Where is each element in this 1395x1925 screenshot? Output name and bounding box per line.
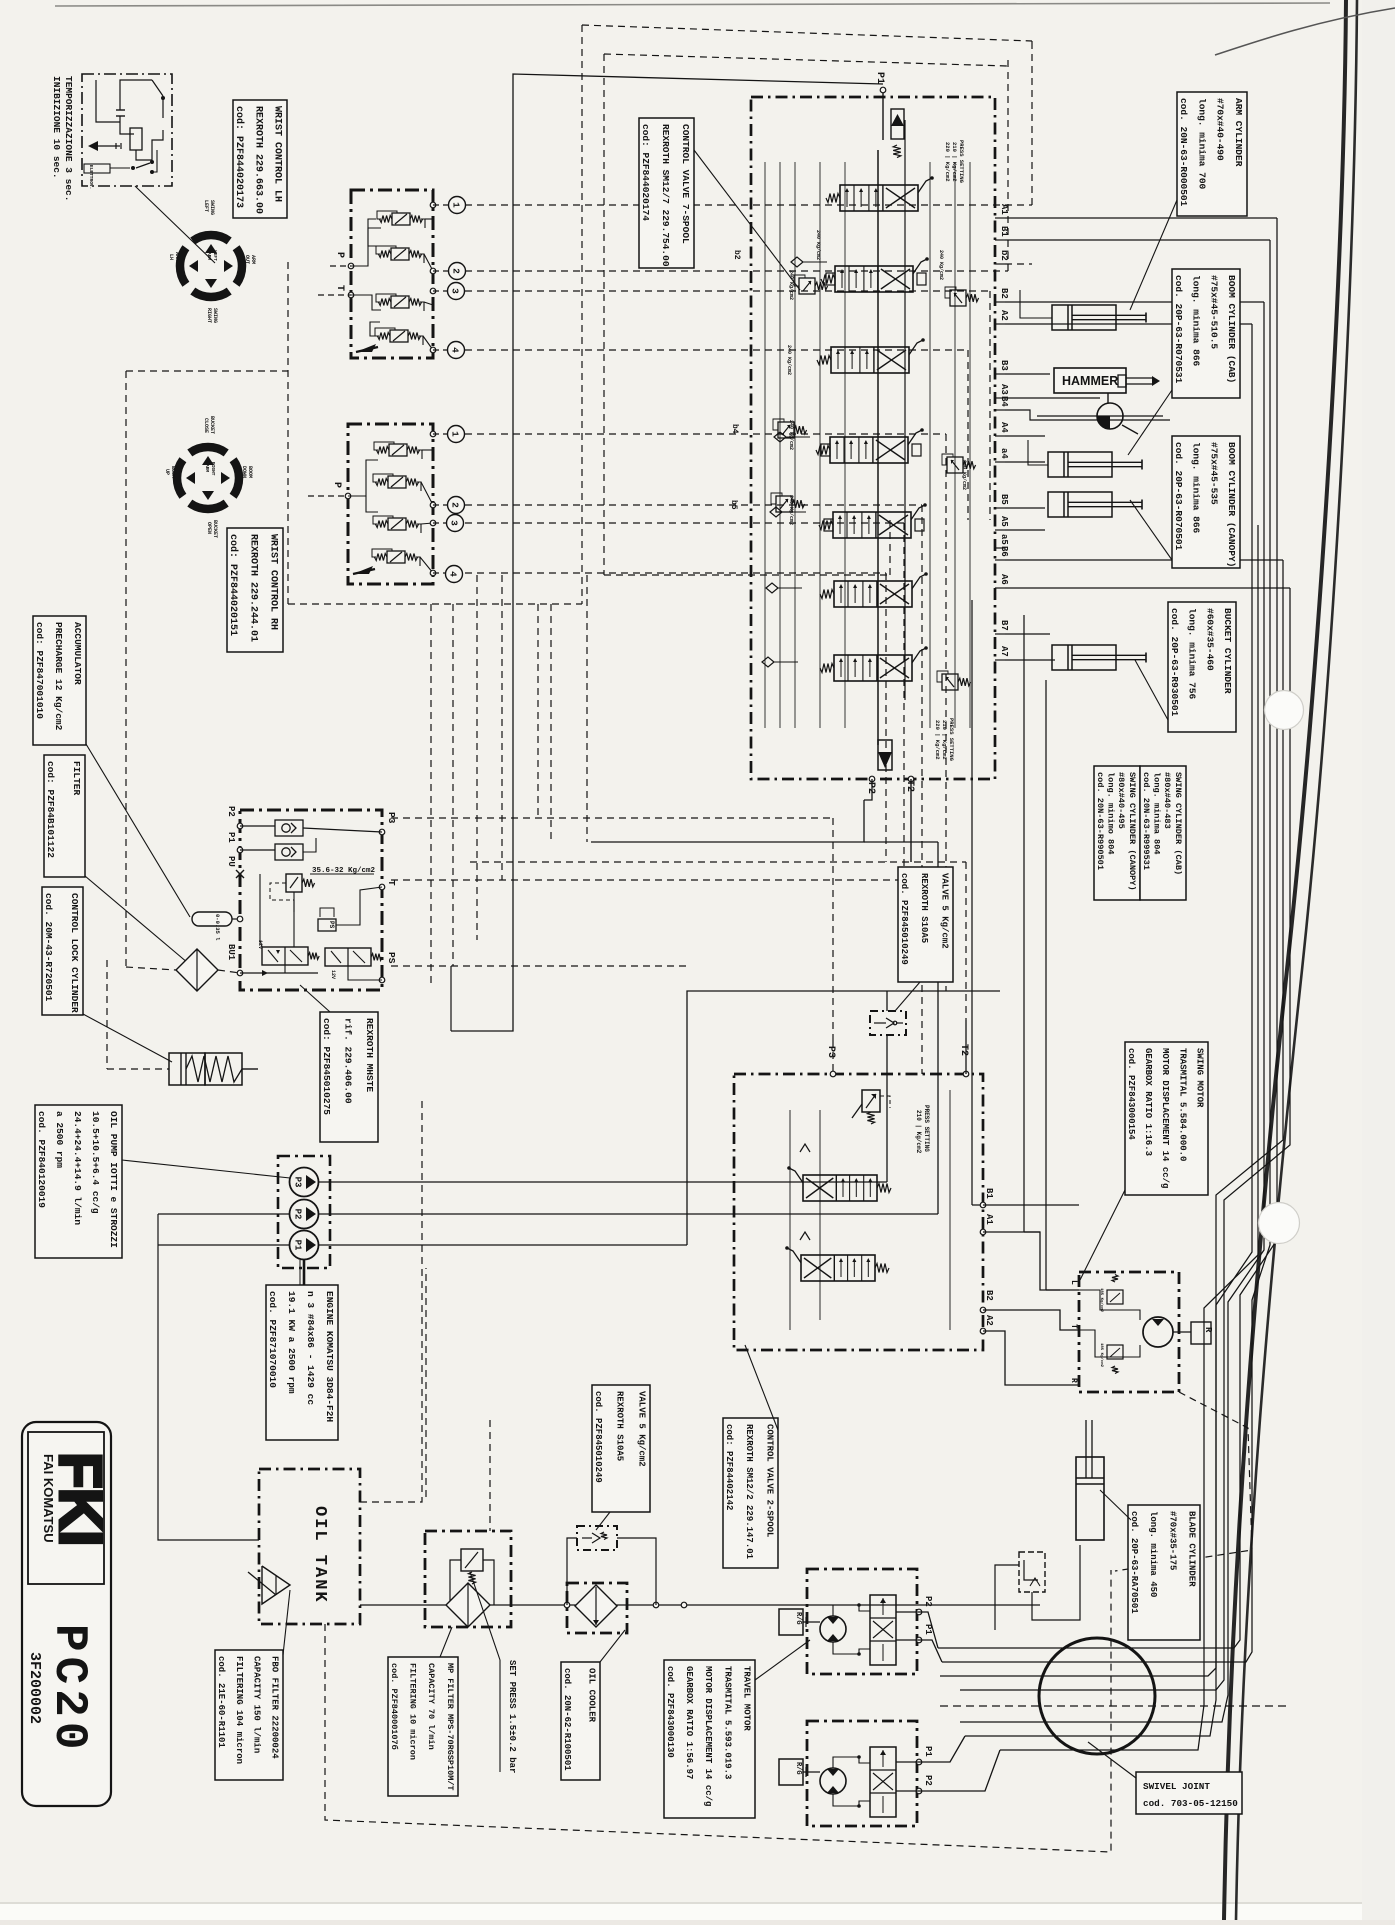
pilot block 2 reducing valve 3 <box>388 518 406 530</box>
filter dashed connections <box>126 967 176 970</box>
svg-text:3: 3 <box>450 288 461 294</box>
svg-text:PS: PS <box>386 952 397 964</box>
svg-text:cod. 20P-63-R070531: cod. 20P-63-R070531 <box>1173 275 1184 384</box>
svg-text:REXROTH S10A5: REXROTH S10A5 <box>919 873 929 943</box>
svg-text:FILTERING 104 micron: FILTERING 104 micron <box>234 1656 244 1764</box>
svg-text:RIGHT: RIGHT <box>206 308 212 323</box>
tank top dashed <box>360 1100 422 1502</box>
label travel motor <box>664 1660 755 1818</box>
label valve 5kg lower <box>592 1385 650 1512</box>
svg-text:P2: P2 <box>226 806 236 817</box>
svg-text:B7: B7 <box>999 620 1009 631</box>
svg-text:ELETTROV.: ELETTROV. <box>88 165 94 189</box>
svg-text:1: 1 <box>451 202 462 208</box>
svg-text:4: 4 <box>448 571 459 577</box>
label boom cylinder cab <box>1172 269 1240 398</box>
svg-text:T: T <box>334 285 345 291</box>
pilot valve block 1 border <box>351 190 433 358</box>
leader oil cooler <box>600 1630 625 1662</box>
svg-text:OIL PUMP IOTTI e STROZZI: OIL PUMP IOTTI e STROZZI <box>108 1111 119 1248</box>
pilot trunk dashed lines <box>126 25 1032 1074</box>
svg-text:TRAVEL MOTOR: TRAVEL MOTOR <box>742 1666 752 1731</box>
swing spool 2 <box>801 1255 875 1281</box>
manifold internal wiring <box>240 826 382 980</box>
manifold ports left <box>226 806 244 976</box>
timer label TEMPORIZZAZIONE <box>51 76 74 201</box>
svg-text:B2: B2 <box>999 288 1009 299</box>
svg-text:4: 4 <box>450 347 461 353</box>
set press text <box>470 1572 517 1773</box>
pump drive shaft <box>303 1260 306 1285</box>
svg-text:TEMPORIZZAZIONE 3 sec.: TEMPORIZZAZIONE 3 sec. <box>63 76 74 201</box>
oil tank border <box>259 1469 360 1624</box>
travel RG box 1 <box>779 1609 803 1635</box>
svg-text:CONTROL VALVE 7-SPOOL: CONTROL VALVE 7-SPOOL <box>680 124 691 244</box>
svg-text:FILTERING 10 micron: FILTERING 10 micron <box>408 1663 418 1760</box>
svg-text:3F200002: 3F200002 <box>26 1652 43 1724</box>
svg-text:A2: A2 <box>999 310 1009 321</box>
swing drain dashed <box>1115 1392 1252 1571</box>
svg-text:240 Kg/cm2: 240 Kg/cm2 <box>788 270 794 300</box>
swing motor reliefs <box>1099 1275 1123 1374</box>
leader line relay to joystick <box>135 186 215 263</box>
svg-text:B3: B3 <box>999 360 1009 371</box>
svg-text:OUT: OUT <box>244 255 250 264</box>
svg-text:240 Kg/cm2: 240 Kg/cm2 <box>788 420 794 450</box>
pilot block 1 reducing valve 2 <box>391 248 409 260</box>
label mp filter <box>388 1657 458 1796</box>
leader 5kg upper <box>895 982 920 1011</box>
swing relief valve <box>852 1090 890 1124</box>
hammer box <box>1054 368 1160 393</box>
svg-text:A3: A3 <box>999 384 1009 395</box>
leader swivel <box>1088 1742 1136 1778</box>
svg-text:cod. 20N-63-R990501: cod. 20N-63-R990501 <box>1095 772 1105 870</box>
mid dashed vertical <box>489 1420 491 1531</box>
leader oil pump <box>122 1160 290 1178</box>
svg-text:ARM: ARM <box>206 252 212 260</box>
leader accumulator <box>86 744 190 917</box>
svg-text:240 Kg/cm2: 240 Kg/cm2 <box>938 250 944 280</box>
label boom cylinder canopy <box>1172 436 1240 568</box>
svg-text:210 | Kg/cm2: 210 | Kg/cm2 <box>951 142 958 182</box>
bucket cylinder symbol <box>1052 645 1116 670</box>
arm cylinder symbol <box>1052 305 1116 330</box>
top paper edge line <box>55 3 1330 6</box>
travel motor block 2 border <box>807 1721 917 1826</box>
joystick RH <box>164 416 253 538</box>
svg-text:#70x#35-175: #70x#35-175 <box>1167 1511 1177 1570</box>
label engine komatsu <box>266 1285 338 1440</box>
pump pressure feed verticals <box>687 991 1000 1245</box>
svg-text:240 Kg/cm2: 240 Kg/cm2 <box>961 460 967 490</box>
label control valve 7-spool <box>639 118 694 268</box>
pump suction lines <box>158 1213 290 1215</box>
svg-text:b2: b2 <box>999 250 1009 261</box>
label swing motor <box>1125 1042 1208 1195</box>
svg-text:10.5+10.5+6.4 cc/g: 10.5+10.5+6.4 cc/g <box>90 1111 101 1214</box>
label swing cylinder canopy <box>1094 766 1140 900</box>
swing motor internal lines <box>1079 1290 1140 1320</box>
pilot block 1 internal wires <box>351 228 381 266</box>
svg-text:B5: B5 <box>999 494 1009 505</box>
FKI logo black <box>41 1452 114 1546</box>
travel motor block 1 wiring <box>833 1605 870 1616</box>
filter diamond <box>176 949 218 991</box>
svg-text:cod. PZF840120019: cod. PZF840120019 <box>36 1111 47 1208</box>
right scan edge lines <box>1224 0 1346 1920</box>
svg-text:LEFT: LEFT <box>203 200 209 212</box>
svg-text:FKI: FKI <box>47 1452 114 1546</box>
svg-text:OIL TANK: OIL TANK <box>310 1506 329 1604</box>
swing motor block border <box>1079 1272 1179 1392</box>
manifold ports right <box>379 812 397 983</box>
pilot block 2 reducing valve 4 <box>387 551 405 563</box>
mid-right long verticals <box>911 600 1060 1290</box>
svg-text:#75x#45-510.5: #75x#45-510.5 <box>1208 275 1219 349</box>
pilot block 2 internal wires <box>348 460 378 496</box>
svg-text:cod: PZF845010275: cod: PZF845010275 <box>321 1018 332 1115</box>
svg-text:BOOM CYLINDER (CANOPY): BOOM CYLINDER (CANOPY) <box>1226 442 1237 567</box>
svg-text:UP: UP <box>164 469 170 475</box>
leader arm cylinder <box>1130 200 1177 310</box>
main control valve border <box>751 97 995 779</box>
svg-text:P1: P1 <box>293 1240 303 1251</box>
label filter <box>44 755 85 877</box>
bottom dashed trunk <box>325 1570 1111 1852</box>
leader rexroth mhste <box>300 985 330 1012</box>
svg-text:cod: PZF847001010: cod: PZF847001010 <box>34 622 45 719</box>
svg-text:B1: B1 <box>999 226 1009 237</box>
svg-text:P2: P2 <box>293 1209 303 1220</box>
svg-text:P: P <box>331 482 342 488</box>
spool 4 boom2 <box>830 437 908 463</box>
svg-text:MP FILTER MPS-70RGSP10M/T: MP FILTER MPS-70RGSP10M/T <box>445 1663 455 1791</box>
swivel dashed line <box>940 1705 1286 1707</box>
accumulator 0-0.35l <box>192 912 243 941</box>
svg-text:WRIST CONTROL RH: WRIST CONTROL RH <box>268 534 279 630</box>
blade cylinder symbol <box>1076 1420 1104 1540</box>
tank return line <box>360 1604 1040 1606</box>
manifold relief 35.6-32 <box>286 867 376 892</box>
svg-text:REXROTH 229.663.00: REXROTH 229.663.00 <box>252 106 263 214</box>
pump P1 <box>290 1231 319 1260</box>
svg-text:RIGHT: RIGHT <box>210 462 216 476</box>
svg-text:220 | Kg/cm2: 220 | Kg/cm2 <box>934 720 941 760</box>
svg-text:a4: a4 <box>999 448 1009 459</box>
leader fbo filter <box>283 1590 290 1655</box>
svg-text:long. minima 866: long. minima 866 <box>1191 275 1202 367</box>
swing motor R box <box>1173 1322 1213 1344</box>
svg-text:240 Kg/cm2: 240 Kg/cm2 <box>786 345 792 375</box>
travel motor block 2 spool <box>870 1747 896 1817</box>
leader filter <box>85 876 188 963</box>
svg-text:cod. PZF845010249: cod. PZF845010249 <box>899 873 909 965</box>
svg-text:cod. PZF843000154: cod. PZF843000154 <box>1126 1048 1136 1140</box>
svg-text:ARM: ARM <box>204 464 210 472</box>
travel motor block 2 motor <box>820 1768 846 1794</box>
svg-text:DOWN: DOWN <box>241 466 247 478</box>
outlet relief bottom <box>878 718 955 770</box>
punch hole 2 <box>1259 1203 1300 1244</box>
svg-text:cod. PZF843000130: cod. PZF843000130 <box>665 1666 675 1758</box>
pump block dashed border <box>278 1156 330 1268</box>
svg-text:GEARBOX RATIO 1:56.97: GEARBOX RATIO 1:56.97 <box>684 1666 694 1779</box>
pilot block 2 circled ports <box>448 426 465 443</box>
svg-text:#70x#40-490: #70x#40-490 <box>1215 98 1226 161</box>
svg-text:12V: 12V <box>330 970 336 979</box>
svg-text:#75x#45-535: #75x#45-535 <box>1208 442 1219 505</box>
cooler bypass lines <box>567 1538 577 1605</box>
label wrist control LH <box>233 100 287 218</box>
svg-text:cod. PZF84000107б: cod. PZF84000107б <box>389 1663 400 1750</box>
manifold solenoid valve right <box>325 948 382 979</box>
manifold check valve 1 <box>275 820 303 836</box>
travel RG box 2 <box>779 1759 803 1785</box>
svg-text:PRESS SETTING: PRESS SETTING <box>948 718 955 762</box>
svg-text:185 Kg/cm2: 185 Kg/cm2 <box>1099 1343 1104 1368</box>
svg-text:240 Kg/cm2: 240 Kg/cm2 <box>788 495 794 525</box>
svg-text:SWING CYLINDER (CAB): SWING CYLINDER (CAB) <box>1173 772 1183 875</box>
svg-text:CONTROL VALVE 2-SPOOL: CONTROL VALVE 2-SPOOL <box>765 1424 775 1537</box>
svg-text:a5: a5 <box>999 534 1009 545</box>
boom cylinder cab symbol <box>1048 452 1112 477</box>
leader line control valve label <box>694 150 800 290</box>
label oil cooler <box>561 1662 600 1780</box>
pilot block 2 reducing valve 2 <box>388 476 406 488</box>
svg-text:P3: P3 <box>825 1046 836 1058</box>
svg-text:HAMMER: HAMMER <box>1062 374 1118 388</box>
manifold PS switch <box>318 908 336 931</box>
mp filter relief <box>450 1549 494 1605</box>
leader 5kg lower <box>596 1512 610 1530</box>
spool 5 swing <box>833 512 911 538</box>
oil cooler bypass valve <box>577 1526 617 1550</box>
svg-text:SWING MOTOR: SWING MOTOR <box>1195 1048 1205 1108</box>
svg-text:A1: A1 <box>999 204 1009 215</box>
svg-text:#80x#40-495: #80x#40-495 <box>1116 772 1126 829</box>
pump P2 <box>290 1200 319 1229</box>
svg-text:24.4+24.4+14.9 l/min: 24.4+24.4+14.9 l/min <box>72 1111 83 1225</box>
svg-text:3: 3 <box>449 520 460 526</box>
svg-text:SET PRESS 1.5±0.2 bar: SET PRESS 1.5±0.2 bar <box>507 1660 517 1773</box>
spool 2 boom <box>835 266 913 292</box>
svg-text:cod: PZF84402142: cod: PZF84402142 <box>724 1424 734 1510</box>
svg-text:TRASMITAL 5.584.000.0: TRASMITAL 5.584.000.0 <box>1177 1048 1187 1161</box>
swing valve border <box>734 1074 983 1350</box>
svg-text:R: R <box>1069 1378 1078 1383</box>
svg-text:220 | Kg/cm2: 220 | Kg/cm2 <box>944 142 951 182</box>
main P gallery <box>877 150 879 745</box>
svg-text:b2: b2 <box>732 250 741 260</box>
P2 feed to main valve <box>591 800 864 842</box>
swivel joint label <box>1136 1772 1242 1814</box>
svg-text:long. minima 756: long. minima 756 <box>1187 608 1198 700</box>
swing checks <box>800 1144 810 1152</box>
svg-text:REXROTH SM12/7 229.754.00: REXROTH SM12/7 229.754.00 <box>660 124 671 267</box>
leader blade cylinder <box>1100 1490 1131 1520</box>
svg-text:long. minima 866: long. minima 866 <box>1191 442 1202 534</box>
svg-text:PC20: PC20 <box>43 1624 95 1754</box>
leader swing motor <box>1080 1190 1125 1280</box>
svg-text:PRESS SETTING: PRESS SETTING <box>958 140 965 184</box>
svg-text:PRESS SETTING: PRESS SETTING <box>923 1105 930 1152</box>
swing motor pipes <box>983 1205 1079 1385</box>
svg-text:BOOM CYLINDER (CAB): BOOM CYLINDER (CAB) <box>1226 275 1237 383</box>
svg-text:long. minima 804: long. minima 804 <box>1152 772 1162 855</box>
svg-text:WRIST CONTROL LH: WRIST CONTROL LH <box>272 106 283 202</box>
blade holding valve <box>1019 1552 1045 1592</box>
svg-text:long. minima 700: long. minima 700 <box>1196 98 1207 190</box>
swing internal verticals <box>789 1110 791 1330</box>
svg-text:#60x#35-460: #60x#35-460 <box>1204 608 1215 671</box>
FKI logo card <box>22 1422 111 1806</box>
leader mp filter <box>440 1627 452 1657</box>
svg-text:A4: A4 <box>999 422 1009 433</box>
hammer breaker circle <box>1037 393 1163 434</box>
joystick LH <box>168 200 256 323</box>
svg-text:cod. 20N-63-R999531: cod. 20N-63-R999531 <box>1141 772 1151 870</box>
svg-text:long. minima 450: long. minima 450 <box>1148 1511 1158 1597</box>
svg-text:FAI KOMATSU: FAI KOMATSU <box>41 1454 56 1543</box>
svg-text:cod. 20N-62-R100501: cod. 20N-62-R100501 <box>562 1668 572 1771</box>
svg-text:REXROTH 229.244.01: REXROTH 229.244.01 <box>247 534 258 642</box>
spool relief valves <box>799 278 815 294</box>
swing press setting text <box>915 1105 930 1154</box>
middle trunk rows <box>391 818 966 1040</box>
svg-text:LEFT: LEFT <box>212 250 218 261</box>
5kg valve vertical connection <box>886 991 888 1011</box>
work port pipe runs <box>1005 218 1290 660</box>
svg-text:SWIVEL JOINT: SWIVEL JOINT <box>1143 1781 1210 1792</box>
svg-text:VALVE 5 Kg/cm2: VALVE 5 Kg/cm2 <box>637 1391 647 1467</box>
label bucket cylinder <box>1168 602 1236 732</box>
svg-text:0-0.35 l: 0-0.35 l <box>214 914 221 941</box>
label fbo filter <box>215 1650 283 1780</box>
label blade cylinder <box>1128 1505 1200 1640</box>
svg-text:A5: A5 <box>999 516 1009 527</box>
manifold solenoid valve left <box>257 940 319 965</box>
svg-text:cod: PZF844020151: cod: PZF844020151 <box>227 534 239 636</box>
svg-text:T2: T2 <box>958 1044 969 1056</box>
svg-text:a 2500 rpm: a 2500 rpm <box>54 1111 65 1168</box>
label control lock cylinder <box>42 887 83 1015</box>
svg-text:rif. 229.406.00: rif. 229.406.00 <box>343 1018 354 1104</box>
P1 feed long line <box>451 74 883 1031</box>
travel pipes to swivel <box>919 1612 938 1648</box>
svg-text:CLOSE: CLOSE <box>203 418 209 433</box>
swivel joint circle <box>1039 1638 1155 1754</box>
dashed to lock cylinder <box>107 1068 169 1070</box>
svg-text:cod: PZF84B101122: cod: PZF84B101122 <box>45 761 56 858</box>
svg-text:ENGINE KOMATSU 3D84-F2H: ENGINE KOMATSU 3D84-F2H <box>324 1291 335 1422</box>
label wrist control RH <box>227 528 283 652</box>
label swing cylinder cab <box>1140 766 1186 900</box>
svg-text:b5: b5 <box>729 500 738 510</box>
svg-text:PU: PU <box>226 856 236 867</box>
svg-text:P1: P1 <box>226 832 236 843</box>
svg-text:REXROTH MHSTE: REXROTH MHSTE <box>364 1018 375 1092</box>
tank strainer <box>248 1566 290 1604</box>
svg-text:OIL COOLER: OIL COOLER <box>587 1668 597 1723</box>
pump output lines <box>318 1181 887 1183</box>
punch hole 1 <box>1265 691 1304 730</box>
svg-text:1: 1 <box>450 431 461 437</box>
valve 5kg upper symbol <box>870 1011 906 1035</box>
svg-text:FILTER: FILTER <box>71 761 82 796</box>
svg-text:P1: P1 <box>923 1746 933 1757</box>
mp filter border <box>425 1531 511 1627</box>
svg-text:INIBIZIONE 10 sec.: INIBIZIONE 10 sec. <box>51 76 62 179</box>
svg-text:TRASMITAL 5.593.019.3: TRASMITAL 5.593.019.3 <box>722 1666 732 1779</box>
leader travel motor <box>755 1640 810 1680</box>
svg-text:A1: A1 <box>984 1214 994 1225</box>
svg-text:PS: PS <box>328 921 335 929</box>
relay timer box <box>82 74 172 189</box>
svg-text:GEARBOX RATIO 1:16.3: GEARBOX RATIO 1:16.3 <box>1143 1048 1153 1156</box>
svg-text:B2: B2 <box>984 1290 994 1301</box>
svg-text:cod. PZF871070010: cod. PZF871070010 <box>267 1291 278 1388</box>
svg-text:CONTROL LOCK CYLINDER: CONTROL LOCK CYLINDER <box>69 893 80 1013</box>
svg-text:cod. 20M-43-R720501: cod. 20M-43-R720501 <box>43 893 54 1002</box>
svg-text:cod: PZF844020174: cod: PZF844020174 <box>640 124 651 221</box>
svg-text:210 | Kg/cm2: 210 | Kg/cm2 <box>915 1110 922 1154</box>
svg-text:BUCKET CYLINDER: BUCKET CYLINDER <box>1222 608 1233 694</box>
svg-text:#80x#40-483: #80x#40-483 <box>1162 772 1172 829</box>
svg-text:REXROTH SM12/2 229.147.01: REXROTH SM12/2 229.147.01 <box>744 1424 754 1560</box>
pump P3 <box>290 1168 319 1197</box>
pilot block 1 circled ports <box>449 197 466 214</box>
svg-text:SWING CYLINDER (CANOPY): SWING CYLINDER (CANOPY) <box>1127 772 1137 891</box>
svg-text:A6: A6 <box>999 574 1009 585</box>
oil cooler diamond <box>575 1585 617 1627</box>
svg-text:ACCUMULATOR: ACCUMULATOR <box>72 622 83 685</box>
pilot block 2 reducing valve 1 <box>389 444 407 456</box>
spool 7 blade <box>834 655 912 681</box>
control lock cylinder symbol <box>169 1053 258 1085</box>
svg-text:MOTOR DISPLACEMENT 14 cc/g: MOTOR DISPLACEMENT 14 cc/g <box>1160 1048 1170 1188</box>
pilot valve block 2 border <box>348 424 433 584</box>
leader control valve 2-spool <box>745 1345 778 1430</box>
svg-text:OPEN: OPEN <box>206 522 212 534</box>
pilot block 1 reducing valve 1 <box>392 213 410 225</box>
svg-text:ARM CYLINDER: ARM CYLINDER <box>1233 98 1244 167</box>
svg-text:A2: A2 <box>984 1315 994 1326</box>
leader boom canopy <box>1130 500 1172 560</box>
travel motor block 1 border <box>807 1569 917 1674</box>
svg-text:FBO FILTER 22200024: FBO FILTER 22200024 <box>270 1656 280 1759</box>
svg-text:CAPACITY 150 l/min: CAPACITY 150 l/min <box>252 1656 262 1753</box>
svg-text:REXROTH S10A5: REXROTH S10A5 <box>615 1391 625 1461</box>
pilot block 1 reducing valve 4 <box>390 330 408 342</box>
label valve 5kg upper <box>898 867 953 982</box>
label control valve 2-spool <box>723 1418 778 1568</box>
blade cylinder pipes <box>1032 1545 1080 1620</box>
svg-text:cod. 20P-63-R070501: cod. 20P-63-R070501 <box>1173 442 1184 551</box>
svg-text:MOTOR DISPLACEMENT 14 cc/g: MOTOR DISPLACEMENT 14 cc/g <box>703 1666 713 1806</box>
main valve internal verticals <box>764 162 766 728</box>
svg-text:P2: P2 <box>923 1775 933 1786</box>
work port labels right side <box>995 204 1009 660</box>
svg-text:L: L <box>1069 1280 1078 1285</box>
anticavitation checks <box>791 257 803 267</box>
svg-text:BLADE CYLINDER: BLADE CYLINDER <box>1187 1511 1197 1587</box>
boom cylinder canopy symbol <box>1048 492 1112 517</box>
label rexroth mhste <box>320 1012 378 1142</box>
svg-text:T: T <box>386 880 397 886</box>
swing motor circle <box>1143 1317 1173 1347</box>
pilot block 1 reducing valve 3 <box>391 296 409 308</box>
